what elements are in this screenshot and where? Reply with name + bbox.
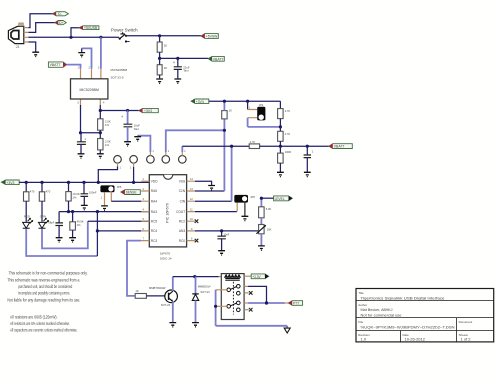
- relay left pins: [216, 290, 227, 307]
- wire pin12 CIN: [195, 200, 232, 202]
- svg-text:RA5: RA5: [151, 189, 157, 193]
- svg-text:68pF: 68pF: [48, 220, 54, 224]
- ground: [192, 323, 199, 327]
- pin stubs J1: [24, 28, 29, 42]
- svg-text:This schematic was reverse-eng: This schematic was reverse-engineered fr…: [7, 277, 79, 282]
- junction: [176, 57, 179, 60]
- junction: [193, 275, 196, 278]
- resistor R8 49.9: [72, 212, 74, 222]
- wire JP5 to RA4: [110, 192, 112, 201]
- svg-text:All resistors are 0605 (125mW): All resistors are 0605 (125mW).: [10, 315, 58, 320]
- svg-text:SOT-23-5: SOT-23-5: [111, 76, 124, 80]
- svg-text:%UQK~9PYK3M9~WJ9BFDMY~D7H2Zb2~: %UQK~9PYK3M9~WJ9BFDMY~D7H2Zb2~T.DSN: [361, 325, 455, 330]
- no-connect relay pin5: [244, 309, 249, 311]
- svg-text:MMBD914: MMBD914: [198, 285, 211, 289]
- test point TP5: [179, 156, 187, 164]
- ground: [258, 246, 265, 250]
- wire RC4 net: [96, 212, 98, 256]
- svg-text:MMBT3904W: MMBT3904W: [149, 286, 166, 290]
- junction: [220, 229, 223, 232]
- resistor R10 1K: [222, 111, 227, 119]
- regulator U2 pins: [81, 69, 101, 105]
- junction: [82, 181, 85, 184]
- svg-text:+3V3: +3V3: [196, 100, 204, 104]
- wire TP1 to rail: [98, 167, 117, 183]
- potentiometer chain: resistor R16: [260, 198, 262, 207]
- wire VBATT to U2 pin1: [67, 65, 81, 69]
- svg-text:JP6: JP6: [250, 195, 255, 199]
- ground: [101, 206, 108, 210]
- svg-text:SENSE: SENSE: [126, 191, 137, 195]
- svg-text:SOT-23: SOT-23: [200, 290, 210, 294]
- relay K1: [221, 274, 244, 320]
- relay pin2 wire: [244, 285, 248, 287]
- junction: [158, 34, 161, 37]
- junction: [71, 210, 74, 213]
- no-connect pin8: [195, 239, 199, 243]
- jack JP5: [100, 185, 114, 192]
- junction: [67, 181, 70, 184]
- junction: [79, 131, 82, 134]
- ground: [78, 154, 85, 158]
- svg-text:CIN: CIN: [180, 199, 186, 203]
- svg-text:VSS: VSS: [179, 179, 185, 183]
- capacitor C4: [58, 212, 60, 223]
- svg-text:AN3: AN3: [179, 229, 185, 233]
- junction: [132, 181, 135, 184]
- ground: [32, 52, 39, 56]
- junction: [260, 197, 263, 200]
- resistor R11 4.7K horizontal: [249, 144, 259, 149]
- svg-text:+3V3: +3V3: [6, 181, 14, 185]
- relay contacts: [227, 285, 240, 312]
- svg-text:All capacitors are ceramic unl: All capacitors are ceramic unless marked…: [10, 327, 78, 332]
- node D-: [29, 14, 53, 28]
- junction: [246, 100, 249, 103]
- net flag +3.3V: [251, 274, 269, 279]
- svg-text:COUT: COUT: [176, 210, 185, 214]
- svg-text:RC2: RC2: [179, 219, 186, 223]
- net label D+: [55, 21, 66, 26]
- junction: [230, 145, 233, 148]
- capacitor C5 100nF: [83, 182, 85, 193]
- wire TP4 to C1N- net: [166, 130, 225, 152]
- resistor R9 1K: [135, 294, 146, 299]
- resistor R3 2.0K: [99, 111, 101, 119]
- capacitor C3 10uF tantalum: [127, 111, 129, 125]
- junction: [265, 301, 268, 304]
- junction: [223, 100, 226, 103]
- svg-text:RC0: RC0: [179, 239, 186, 243]
- U1 pin names: [151, 179, 186, 242]
- U1 right pin stubs: [187, 181, 195, 240]
- svg-text:1K: 1K: [229, 108, 232, 112]
- svg-text:MIC5205BM: MIC5205BM: [79, 88, 99, 92]
- ground: [97, 154, 104, 158]
- svg-text:JP5: JP5: [117, 185, 122, 189]
- junction: [25, 181, 28, 184]
- wire LED2 to RC5 net: [42, 221, 88, 248]
- svg-text:VDD: VDD: [151, 179, 158, 183]
- capacitor C7 10nF: [221, 231, 223, 236]
- svg-text:RA3: RA3: [151, 210, 157, 214]
- wire TP2 to rail: [133, 167, 135, 182]
- wire VBUS: [29, 36, 117, 38]
- svg-text:RC3: RC3: [151, 239, 158, 243]
- wire to +5VUSB flag: [71, 28, 79, 38]
- wire Q1 emitter to ground: [172, 301, 174, 322]
- svg-text:+3V3: +3V3: [144, 109, 152, 113]
- svg-text:10-26-2012: 10-26-2012: [405, 337, 426, 342]
- junction: [96, 229, 99, 232]
- junction: [40, 181, 43, 184]
- ground: [169, 323, 176, 327]
- svg-text:Tant: Tant: [134, 127, 140, 131]
- junction: [158, 57, 161, 60]
- svg-text:MIC5205BM: MIC5205BM: [111, 68, 128, 72]
- svg-text:D+: D+: [59, 21, 64, 25]
- svg-text:1%: 1%: [77, 223, 81, 227]
- wire to VBATT flag: [160, 57, 209, 59]
- svg-text:1%: 1%: [105, 143, 110, 147]
- wire switch to +5VSW: [127, 35, 201, 37]
- junction: [69, 36, 72, 39]
- svg-text:incomplete and possibly contai: incomplete and possibly containing error…: [18, 291, 70, 296]
- svg-text:VBATT: VBATT: [213, 57, 224, 61]
- notes text block 2: [10, 315, 78, 333]
- net flag +3V3 (left rail): [1, 180, 19, 185]
- svg-text:Not for commercial use: Not for commercial use: [361, 313, 403, 318]
- svg-text:100nF: 100nF: [89, 190, 97, 194]
- svg-text:Power Switch: Power Switch: [111, 27, 138, 32]
- svg-text:LEVEL: LEVEL: [275, 197, 285, 201]
- net flag +3V3 (pullup rail): [191, 99, 209, 104]
- wire collector rail to relay coil: [173, 276, 219, 278]
- svg-text:1%: 1%: [72, 196, 77, 200]
- svg-text:Mat Becker, AB9KJ: Mat Becker, AB9KJ: [361, 307, 393, 312]
- test point TP2: [130, 156, 138, 164]
- net flag VBATT (right): [329, 144, 352, 149]
- wire mid net: [182, 145, 249, 147]
- wire TP3 to ground: [138, 136, 151, 152]
- wire VDD rail: [19, 181, 149, 183]
- svg-text:RA4: RA4: [151, 199, 157, 203]
- transistor Q1 MMBT3904: [165, 290, 178, 303]
- title block text: [358, 291, 472, 342]
- net label D-: [53, 12, 69, 17]
- svg-text:PIC 16F676: PIC 16F676: [166, 203, 170, 223]
- wire relay common rail: [215, 290, 217, 326]
- relay pin4 wire to PTT: [244, 302, 248, 304]
- svg-text:5.0K: 5.0K: [266, 207, 272, 211]
- svg-text:1 of 2: 1 of 2: [461, 337, 472, 342]
- svg-text:+5VSW: +5VSW: [206, 35, 218, 39]
- wire to LEVEL flag: [261, 197, 273, 199]
- test point TP4: [162, 156, 170, 164]
- U1 left pin stubs: [141, 181, 149, 240]
- svg-text:Tigertronics Signalink USB Dig: Tigertronics Signalink USB Digital Inter…: [361, 296, 446, 301]
- svg-text:+5VUSB: +5VUSB: [84, 26, 98, 30]
- IC U1 PIC16F676: [149, 175, 186, 247]
- jack JP6: [234, 195, 248, 203]
- junction: [97, 181, 100, 184]
- capacitor C2: [80, 133, 82, 142]
- ground: [124, 142, 131, 146]
- svg-text:Title: Title: [358, 291, 364, 295]
- wire to RC5 pin: [88, 220, 150, 222]
- notes text block 1: [7, 271, 87, 303]
- resistor R14 4.7K: [279, 127, 281, 131]
- svg-text:4.7K: 4.7K: [250, 140, 256, 144]
- svg-text:PTT: PTT: [293, 302, 299, 306]
- ground: [156, 79, 163, 83]
- USB connector J1: [8, 26, 23, 43]
- svg-text:4.7K: 4.7K: [285, 109, 291, 113]
- junction: [99, 131, 102, 134]
- svg-text:SOIC-14: SOIC-14: [160, 257, 172, 261]
- svg-text:VBATT: VBATT: [50, 63, 61, 67]
- svg-text:100R: 100R: [285, 150, 291, 154]
- svg-text:JP4: JP4: [259, 103, 264, 107]
- no-connect pin10: [195, 219, 199, 223]
- junction: [126, 109, 129, 112]
- svg-text:1K: 1K: [164, 66, 168, 70]
- junction: [96, 210, 99, 213]
- svg-text:+3.3V: +3.3V: [252, 275, 261, 279]
- resistor R5 470: [25, 182, 27, 191]
- wire +3V3 pullup rail: [209, 100, 281, 102]
- wire COUT to JP6: [195, 211, 237, 213]
- svg-text:Document: Document: [459, 320, 473, 324]
- junction: [67, 210, 70, 213]
- net flag +3V3: [139, 108, 159, 113]
- no-connect relay pin3: [244, 292, 249, 294]
- wire +5V to U2 pin3: [100, 37, 102, 69]
- junction: [306, 145, 309, 148]
- chassis ground: [286, 326, 288, 328]
- svg-text:This schematic is for non-comm: This schematic is for non-commercial pur…: [9, 271, 88, 276]
- capacitor C1 22uF: [177, 58, 179, 66]
- resistor R7 10.0K: [68, 182, 70, 191]
- net flag LEVEL: [274, 196, 293, 201]
- net flag PTT: [288, 301, 302, 306]
- svg-text:Tant: Tant: [183, 69, 189, 73]
- svg-text:1K: 1K: [164, 44, 168, 48]
- ground: [81, 205, 88, 209]
- wire U2 pin4 to +3V3: [99, 105, 101, 111]
- svg-text:4.7K: 4.7K: [285, 132, 291, 136]
- wire pin13 C1N: [195, 190, 225, 192]
- junction: [223, 129, 226, 132]
- svg-text:RED: RED: [24, 214, 30, 218]
- ground: [78, 53, 85, 57]
- svg-text:C1N: C1N: [179, 189, 186, 193]
- junction: [279, 145, 282, 148]
- net flag SENSE (RA5): [121, 190, 140, 195]
- wire LED1 to RC4 net: [26, 229, 97, 256]
- svg-text:RC5: RC5: [151, 219, 158, 223]
- resistor R4 2.0K: [99, 133, 101, 139]
- capacitor C6: [306, 146, 308, 155]
- ground: [277, 172, 284, 176]
- ground: [304, 172, 311, 176]
- svg-text:10K: 10K: [267, 228, 272, 232]
- svg-text:Not liable for any damage resu: Not liable for any damage resulting from…: [7, 297, 80, 302]
- svg-text:GRN: GRN: [40, 214, 46, 218]
- resistor R6 470: [41, 182, 43, 191]
- net flag +5VSW: [201, 34, 218, 39]
- wire ground to U2 pin2: [82, 48, 92, 68]
- node D+: [29, 23, 55, 33]
- svg-text:J1: J1: [16, 45, 20, 49]
- U1 pin numbers: [143, 178, 194, 240]
- svg-text:1K: 1K: [135, 289, 138, 293]
- svg-text:1%: 1%: [105, 123, 110, 127]
- junction: [214, 305, 217, 308]
- svg-text:49.9K: 49.9K: [77, 219, 84, 223]
- wire VSS to ground: [195, 181, 212, 185]
- svg-text:16F676: 16F676: [160, 252, 171, 256]
- svg-text:File: File: [358, 320, 363, 324]
- junction: [99, 36, 102, 39]
- net flag +5VUSB: [79, 26, 99, 30]
- resistor R13 4.7K: [279, 101, 281, 108]
- ground: [242, 216, 249, 220]
- wire USB shield to ground: [29, 42, 36, 52]
- svg-text:RC4: RC4: [151, 229, 158, 233]
- diode D1 MMBD914: [195, 277, 197, 294]
- resistor R15 100R: [279, 146, 281, 153]
- wire pin9 AN3: [195, 230, 259, 232]
- relay coil pin to flag: [244, 275, 251, 277]
- svg-text:All resistors are 5% unless ma: All resistors are 5% unless marked other…: [10, 321, 70, 326]
- wire divider to RA3: [59, 211, 149, 213]
- ground: [174, 79, 181, 83]
- net flag VBATT: [208, 56, 224, 61]
- resistor R1: [159, 36, 161, 42]
- ground: [56, 238, 63, 242]
- junction: [279, 125, 282, 128]
- ground: [69, 238, 76, 242]
- regulator U2 MIC5205BM: [71, 79, 108, 99]
- potentiometer RV1: [259, 225, 265, 234]
- svg-text:1.0: 1.0: [361, 337, 367, 342]
- test point TP1: [114, 156, 122, 164]
- wire RC3 to Q1 base: [127, 241, 141, 296]
- svg-text:470: 470: [30, 189, 35, 193]
- ground: [134, 136, 141, 141]
- svg-text:purchased unit, and should be: purchased unit, and should be considered: [18, 284, 72, 289]
- junction: [265, 301, 268, 304]
- test point TP3: [147, 156, 155, 164]
- title block frame: [356, 289, 494, 342]
- net flag VBATT (to regulator): [48, 62, 66, 67]
- wire Q1 collector: [172, 277, 174, 291]
- ground: [218, 251, 225, 255]
- svg-text:470: 470: [46, 189, 51, 193]
- resistor R2: [157, 65, 162, 75]
- wire bottom rail: [216, 325, 288, 327]
- jack JP4: [247, 101, 249, 109]
- svg-text:SOT-23: SOT-23: [161, 303, 171, 307]
- wire U2 pin5 down: [81, 105, 101, 133]
- junction: [99, 109, 102, 112]
- ground: [208, 186, 215, 190]
- svg-text:VBATT: VBATT: [334, 145, 345, 149]
